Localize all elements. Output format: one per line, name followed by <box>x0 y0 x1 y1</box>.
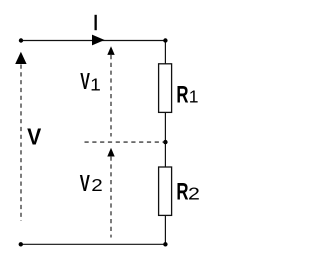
svg-text:R: R <box>176 179 188 206</box>
svg-text:1: 1 <box>90 75 101 95</box>
voltage arrow V (arrowhead) <box>15 52 26 64</box>
node bottom-left <box>19 242 23 246</box>
wire right vertical middle <box>164 112 166 167</box>
node bottom-right <box>163 242 167 246</box>
node mid-right junction R1/R2 <box>163 140 167 144</box>
svg-text:V: V <box>27 123 41 149</box>
svg-text:R: R <box>176 82 188 109</box>
svg-text:2: 2 <box>188 184 200 204</box>
node top-left <box>19 38 23 42</box>
svg-text:2: 2 <box>91 176 102 195</box>
svg-text:V: V <box>80 70 90 95</box>
label I <box>95 15 97 30</box>
node top-right <box>163 38 167 42</box>
voltage dashed line V2 <box>110 157 112 238</box>
wire top horizontal <box>21 40 165 42</box>
label V1 <box>80 70 90 95</box>
current arrow I on top wire <box>92 35 105 46</box>
voltage dashed line V <box>20 65 22 222</box>
resistor R2 <box>159 167 172 215</box>
label R2 <box>176 179 188 206</box>
wire right vertical lower <box>164 215 166 244</box>
label V2 <box>80 171 90 197</box>
svg-text:1: 1 <box>189 87 199 107</box>
resistor R1 <box>159 64 172 113</box>
label R1 <box>176 82 188 109</box>
voltage dashed line V1 <box>110 55 112 137</box>
dashed divider line to junction <box>85 141 166 143</box>
svg-text:V: V <box>80 171 90 197</box>
wire bottom horizontal <box>21 243 166 245</box>
voltage arrow V2 (arrowhead) <box>107 148 114 157</box>
wire right vertical upper <box>164 41 166 65</box>
voltage arrow V1 (arrowhead) <box>107 46 114 55</box>
label V <box>27 123 41 149</box>
